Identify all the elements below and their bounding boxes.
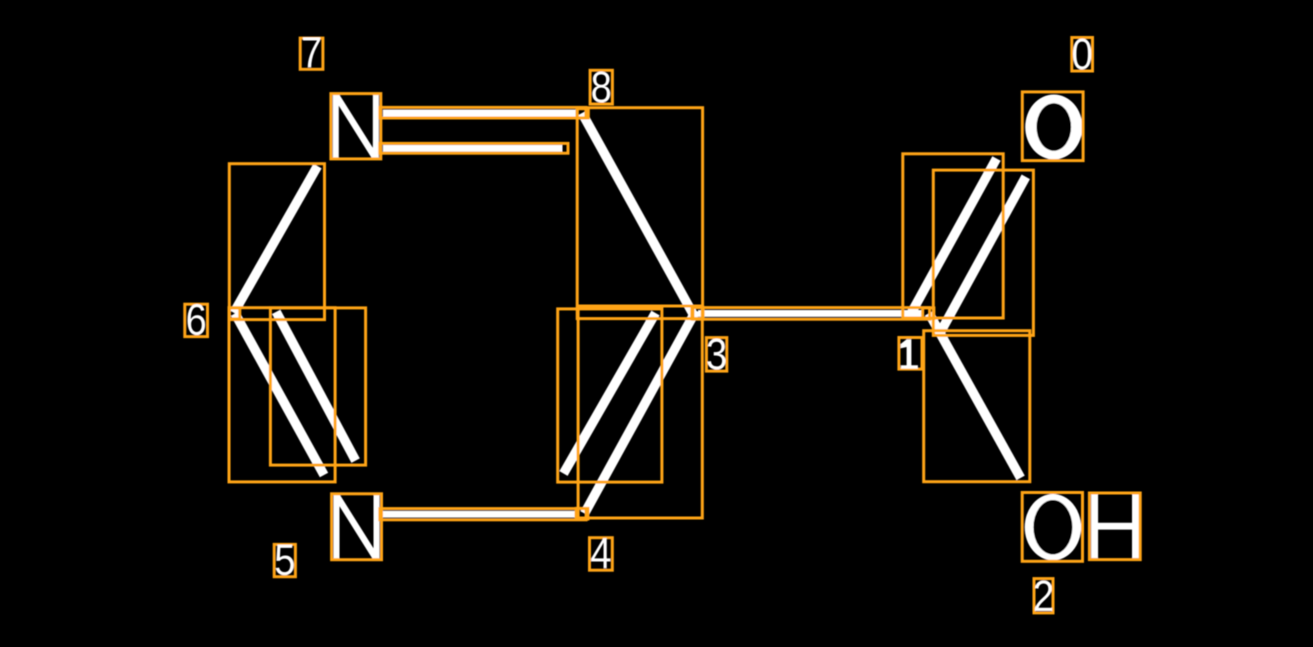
box atom O2 H: [1089, 493, 1140, 560]
box bond C1-O2: [924, 331, 1030, 482]
label box atom index 3: [706, 338, 726, 372]
box atom N5: [332, 494, 382, 560]
box atom C1: [923, 308, 934, 319]
atom N7 glyph: [333, 94, 379, 159]
label digit 8: [592, 71, 610, 102]
label box atom index 8: [590, 70, 612, 104]
label digit 2: [1035, 580, 1052, 611]
box bond C1=O0 main line: [903, 154, 1003, 318]
box bond N7=C8 inner line: [380, 143, 568, 153]
box bond C1=O0 inner line: [933, 170, 1033, 335]
label box atom index 0: [1072, 38, 1093, 72]
box bond N7=C8 main line: [380, 107, 586, 118]
atom O2 glyph O: [1025, 494, 1081, 560]
label digit 6: [187, 304, 205, 335]
box atom C8: [577, 109, 588, 118]
box atom C6: [229, 308, 239, 319]
wire bond C6=N5 inner line: [276, 312, 355, 461]
atom N5 glyph: [333, 495, 379, 560]
label digit 3: [707, 339, 725, 370]
box bond C8-C3: [577, 108, 702, 319]
wire bond C4-N5: [383, 511, 576, 518]
box bond C3=C4 main line: [578, 306, 702, 518]
wire bond C1=O0 inner line: [940, 177, 1026, 333]
label box atom index 1: [899, 338, 922, 370]
label digit 1: [901, 339, 918, 369]
label box atom index 5: [274, 544, 295, 576]
wire bond C1=O0 main line: [911, 159, 997, 314]
label box atom index 4: [590, 538, 613, 571]
box bond C3=C4 inner line: [558, 309, 662, 482]
wire bond N7-C6: [234, 166, 318, 313]
box atom O0: [1022, 92, 1083, 161]
box bond C3-C1: [693, 308, 930, 320]
wire bond N7=C8 inner line: [383, 145, 563, 152]
box bond N7-C6: [229, 164, 324, 320]
box bond C4-N5: [380, 509, 586, 520]
wire bond C3=C4 inner line: [564, 313, 656, 474]
atom O2 glyph H: [1091, 494, 1139, 558]
label digit 7: [303, 37, 320, 67]
wire bond C3-C1: [698, 310, 923, 317]
wire bond C1-O2: [929, 313, 1021, 478]
box atom O2 O: [1022, 493, 1082, 562]
box atom C3: [692, 307, 703, 319]
label box atom index 2: [1034, 579, 1053, 613]
wire bond C6=N5 main line: [235, 313, 324, 475]
box atom C4: [576, 508, 588, 519]
wire bond C3=C4 main line: [585, 311, 697, 514]
label box atom index 6: [185, 304, 208, 336]
label digit 0: [1073, 38, 1091, 69]
label box atom index 7: [300, 38, 323, 69]
wire bond C8-C3: [582, 113, 693, 313]
atom O0 glyph: [1025, 95, 1082, 160]
label digit 5: [276, 545, 294, 576]
label digit 4: [591, 538, 610, 568]
box atom N7: [331, 94, 381, 159]
wire bond N7=C8 main line: [383, 110, 576, 117]
box bond C6=N5 inner line: [270, 308, 365, 465]
box bond C6=N5 main line: [229, 308, 335, 482]
